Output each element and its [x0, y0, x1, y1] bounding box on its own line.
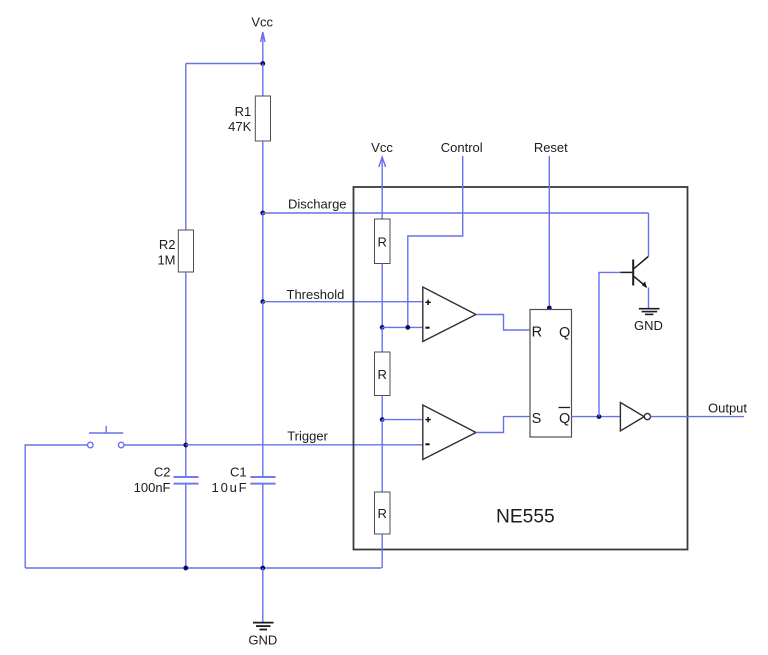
resistor R1: [255, 96, 270, 141]
wire Discharge horizontal into IC to transistor collector: [263, 212, 649, 214]
wire ground stub down: [262, 568, 264, 623]
node control junction on - input: [405, 325, 410, 330]
latch U3 (SR flip-flop): [530, 310, 572, 438]
wire divider top R to junction: [381, 264, 383, 328]
svg-text:Reset: Reset: [534, 140, 568, 155]
wire feedback up to transistor base: [599, 272, 621, 416]
op-amp U1 (threshold comparator): [423, 287, 476, 342]
svg-text:Q: Q: [559, 325, 570, 341]
svg-text:R: R: [378, 506, 387, 521]
wire left vertical from trigger line down: [25, 445, 87, 568]
power symbol Vcc (top supply): [251, 15, 273, 64]
wire ground rail bottom: [25, 567, 381, 569]
wire top horizontal from R2 column to Vcc node: [186, 63, 263, 65]
svg-text:NE555: NE555: [496, 507, 555, 528]
wire discharge node down to threshold node: [262, 213, 264, 302]
wire threshold node down to capacitor C1: [262, 302, 264, 477]
inverter U4 (output buffer): [620, 403, 650, 431]
resistor R (divider top): [375, 219, 391, 264]
wire junction to comparator U1 - input: [382, 326, 423, 328]
svg-text:R: R: [378, 367, 387, 382]
wire U2 output to latch S input: [476, 417, 530, 433]
node Trigger at C2: [183, 443, 188, 448]
wire Vcc node down to R1: [262, 64, 264, 97]
wire discharge down to transistor collector: [648, 213, 650, 257]
node Reset at latch: [547, 306, 552, 311]
node divider junction 1: [380, 325, 385, 330]
wire divider junction down to middle R: [381, 327, 383, 352]
node junction Vcc/R1/R2: [260, 61, 265, 66]
svg-text:C2: C2: [154, 464, 171, 479]
svg-text:100nF: 100nF: [134, 480, 171, 495]
node Discharge: [260, 211, 265, 216]
pin label Q-bar: [559, 408, 571, 427]
capacitor C1: [250, 477, 275, 484]
svg-text:C1: C1: [230, 464, 247, 479]
svg-text:S: S: [532, 411, 542, 427]
label R1 47K: [228, 104, 251, 134]
svg-text:R1: R1: [235, 104, 252, 119]
svg-text:Vcc: Vcc: [371, 140, 393, 155]
wire bottom R to ground rail: [381, 534, 383, 568]
resistor R (divider bottom): [375, 492, 391, 534]
label C1 10uF: [212, 464, 249, 495]
ground symbol (bottom): [253, 623, 274, 630]
svg-text:47K: 47K: [228, 119, 251, 134]
wire inverter to Output: [651, 416, 745, 418]
node ground rail / C2: [183, 566, 188, 571]
wire junction 2 to comparator U2 + input: [382, 419, 423, 421]
IC boundary box NE555: [354, 187, 688, 550]
node ground rail / C1: [260, 566, 265, 571]
svg-text:R2: R2: [159, 237, 176, 252]
svg-text:Control: Control: [441, 140, 483, 155]
wire Control pin down and over to comparator U1 - input: [408, 156, 463, 327]
resistor R2: [178, 230, 193, 272]
wire latch Q-bar output to inverter: [572, 416, 621, 418]
svg-text:1M: 1M: [157, 253, 175, 268]
svg-text:10uF: 10uF: [212, 480, 249, 495]
wire U1 output to latch R input: [476, 315, 530, 331]
svg-text:GND: GND: [634, 318, 663, 333]
switch S1 push button: [88, 426, 124, 448]
wire Reset pin down to latch: [548, 156, 550, 310]
wire R1 bottom to discharge node: [262, 141, 264, 213]
wire switch to trigger node: [124, 444, 186, 446]
svg-text:GND: GND: [248, 633, 277, 648]
wire Threshold horizontal to comparator U1 + input: [263, 301, 423, 303]
wire junction 2 down to bottom R: [381, 420, 383, 492]
power symbol Vcc (IC pin 8): [371, 140, 393, 219]
wire transistor emitter to ground: [648, 288, 650, 309]
label C2 100nF: [134, 464, 171, 495]
wire C2 bottom to ground rail: [185, 484, 187, 568]
svg-text:Output: Output: [708, 401, 747, 416]
wire Trigger horizontal to comparator U2 - input: [186, 444, 423, 446]
resistor R (divider middle): [375, 352, 391, 396]
op-amp U2 (trigger comparator): [423, 405, 476, 460]
wire R2 column upper segment: [185, 64, 187, 231]
node divider junction 2: [380, 417, 385, 422]
wire C1 bottom to ground rail: [262, 484, 264, 568]
label R2 1M: [157, 237, 175, 268]
wire middle R to junction 2: [381, 396, 383, 420]
transistor Q1 (discharge): [621, 257, 649, 289]
svg-text:Discharge: Discharge: [288, 197, 347, 212]
node Q-bar feedback junction: [597, 414, 602, 419]
capacitor C2: [174, 477, 199, 484]
svg-text:R: R: [378, 235, 387, 250]
wire R2 column lower segment to trigger line: [185, 272, 187, 445]
ground symbol (transistor emitter): [639, 309, 660, 315]
svg-text:Trigger: Trigger: [287, 429, 328, 444]
svg-text:R: R: [532, 325, 542, 341]
svg-text:Q: Q: [559, 411, 570, 427]
node Threshold: [260, 299, 265, 304]
svg-text:Threshold: Threshold: [287, 287, 345, 302]
wire C2 top stub from trigger node: [185, 445, 187, 477]
svg-text:Vcc: Vcc: [251, 15, 273, 30]
